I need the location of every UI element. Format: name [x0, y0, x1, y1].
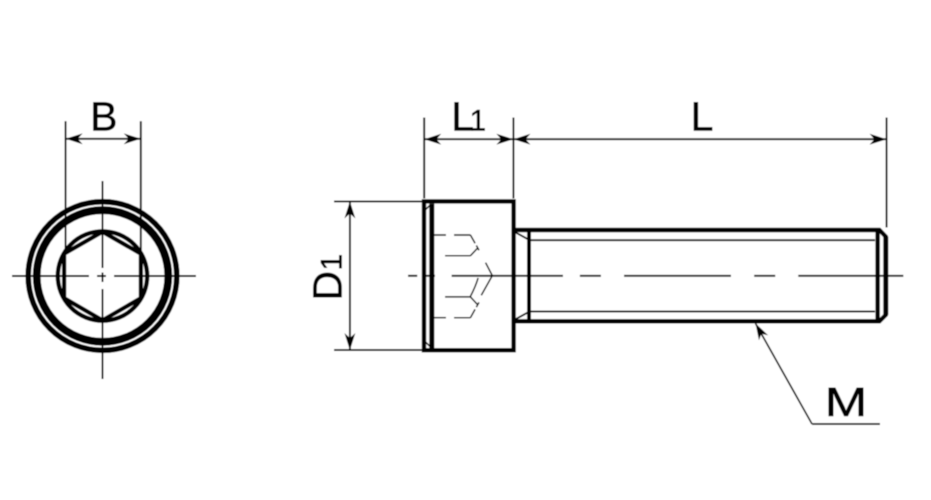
main centerline	[408, 275, 903, 277]
thread runout diag bottom	[515, 312, 530, 320]
M leader arrowhead	[756, 323, 769, 340]
L1 extension line left	[423, 118, 425, 199]
thread runout line	[527, 231, 531, 321]
socket cone diag top inner	[470, 249, 477, 256]
B arrow right	[124, 133, 141, 144]
L1/L shared extension line	[512, 118, 514, 199]
svg-text:M: M	[825, 379, 868, 425]
svg-text:B: B	[90, 93, 117, 139]
socket hidden line top outer	[434, 234, 471, 236]
socket hidden line bottom outer	[434, 317, 471, 319]
thread minor line top	[529, 239, 875, 241]
socket cone diag bottom outer	[470, 302, 479, 317]
head chamfer corner bottom	[425, 341, 431, 347]
shaft end face line	[883, 237, 888, 315]
B dimension line	[66, 138, 141, 140]
D1 dimension line	[349, 201, 351, 350]
socket arc	[470, 278, 478, 297]
B arrow left	[66, 133, 83, 144]
L extension line right	[886, 118, 888, 228]
B extension line left	[65, 121, 67, 253]
head chamfer corner top	[425, 204, 431, 210]
socket circle	[58, 231, 147, 320]
head outer circle	[28, 202, 177, 351]
socket hidden line top inner	[445, 255, 470, 257]
L arrow right	[870, 134, 887, 145]
D1 extension line top	[334, 200, 423, 202]
L1 dimension line	[424, 138, 513, 140]
socket cone point chevron	[481, 263, 492, 296]
thread minor line bottom	[529, 311, 875, 313]
socket cone diag top outer	[470, 235, 479, 250]
M leader diagonal	[756, 323, 813, 424]
D1 extension line bottom	[334, 349, 423, 351]
shaft outline	[514, 230, 886, 321]
L1 arrow left	[424, 134, 441, 145]
D1 arrow up	[345, 201, 356, 218]
head chamfer circle	[37, 210, 169, 342]
M leader horizontal	[812, 423, 880, 425]
vertical centerline	[102, 181, 104, 379]
B extension line right	[140, 121, 142, 253]
horizontal centerline	[12, 275, 196, 277]
head chamfer line	[429, 204, 434, 348]
L1 arrow right	[496, 134, 513, 145]
thread runout diag top	[515, 232, 530, 240]
L dimension line	[513, 138, 886, 140]
shaft end chamfer line	[875, 231, 879, 320]
D1 arrow down	[345, 333, 356, 350]
svg-text:1: 1	[470, 104, 487, 137]
svg-text:L: L	[691, 93, 714, 139]
head outline	[424, 201, 514, 350]
L arrow left	[513, 134, 530, 145]
socket cone diag bottom inner	[470, 297, 477, 304]
hex socket hexagon	[64, 232, 141, 321]
socket hidden line bottom inner	[445, 296, 470, 298]
